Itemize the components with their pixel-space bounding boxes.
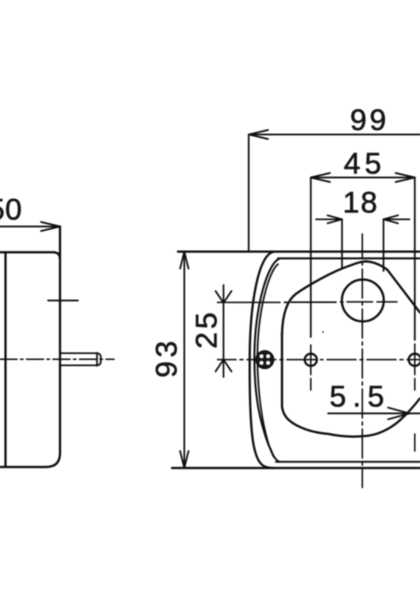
svg-text:99: 99 [350, 104, 389, 137]
lens rim top edge [278, 257, 420, 259]
lens rim bottom edge [276, 461, 420, 463]
side view right edge and bottom edge [0, 227, 60, 468]
housing top edge + 93 extension [178, 250, 420, 252]
housing left edge rim curve [254, 259, 279, 462]
dim 99 extension line [248, 135, 250, 252]
dim 25 bottom chevron arrow [216, 360, 232, 372]
dim 45 left arrow [311, 173, 330, 182]
dim 25 top extension / lamp hole horizontal centerline [218, 301, 398, 304]
dim 5.5 leader line [328, 412, 420, 414]
screw head disc [256, 351, 274, 369]
svg-text:93: 93 [151, 337, 184, 377]
housing left edge rim inner face line [257, 264, 278, 457]
dim 93 line [183, 252, 185, 468]
svg-text:5.5: 5.5 [330, 381, 391, 414]
vertical centerline [361, 234, 363, 488]
dim 93 bottom arrow [180, 451, 188, 468]
dim 25 top chevron arrow [216, 291, 232, 303]
dim 99 line [249, 134, 420, 136]
right hole vertical centerline [414, 344, 416, 451]
svg-text:50: 50 [0, 193, 22, 226]
dim 25 line [223, 285, 225, 377]
right hole [409, 354, 420, 366]
svg-text:25: 25 [191, 309, 224, 348]
screw head cross recess [259, 354, 270, 365]
dim 18 left arrow with shaft [316, 215, 342, 223]
left hole vertical centerline [310, 345, 312, 390]
dim 50 line [0, 226, 60, 228]
stray scan speck [322, 331, 324, 333]
dim 99 arrow [249, 130, 268, 139]
dim 45 left extension line [310, 178, 312, 338]
stud centerline [0, 358, 114, 360]
dim 45 right arrow [396, 173, 415, 182]
mounting stud [61, 353, 101, 366]
dim 45 right extension line [414, 178, 416, 341]
dim 93 top arrow [180, 252, 188, 269]
dim 18 right extension line [383, 219, 385, 271]
side view lens seam line [4, 253, 6, 467]
dim 18 right arrow with shaft [384, 215, 410, 223]
horizontal centerline [218, 359, 420, 361]
dim 45 line [311, 177, 415, 179]
shield outline upper part [282, 261, 420, 334]
housing bottom edge + 93 extension [172, 467, 420, 469]
dim 18 left extension line [341, 219, 343, 268]
dim 50 arrow [41, 222, 60, 231]
side view top edge [0, 252, 60, 259]
side view reference tick at lamp-hole height [48, 300, 78, 302]
svg-text:18: 18 [343, 187, 379, 220]
left hole [305, 354, 317, 366]
dim 5.5 arrow [388, 408, 410, 420]
shield outline lower part [282, 333, 420, 437]
housing left edge outer curve [250, 252, 274, 468]
svg-text:45: 45 [344, 148, 386, 181]
lamp hole circle [342, 280, 384, 322]
